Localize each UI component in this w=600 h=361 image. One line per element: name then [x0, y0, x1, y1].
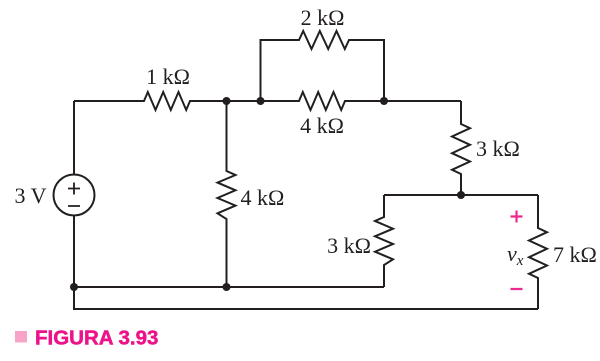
svg-text:FIGURA 3.93: FIGURA 3.93: [35, 327, 158, 350]
svg-text:vx: vx: [507, 241, 524, 269]
svg-text:4 kΩ: 4 kΩ: [241, 185, 285, 210]
svg-text:7 kΩ: 7 kΩ: [553, 242, 597, 267]
svg-text:2 kΩ: 2 kΩ: [301, 5, 345, 30]
svg-text:3 V: 3 V: [15, 183, 47, 208]
svg-text:1 kΩ: 1 kΩ: [146, 64, 190, 89]
svg-text:3 kΩ: 3 kΩ: [476, 136, 520, 161]
svg-text:4 kΩ: 4 kΩ: [300, 113, 344, 138]
svg-text:3 kΩ: 3 kΩ: [327, 233, 371, 258]
